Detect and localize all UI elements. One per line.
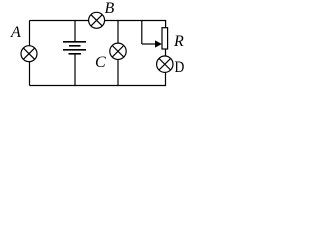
rheostat wiper arrowhead xyxy=(155,40,162,47)
lamp C xyxy=(110,43,126,59)
battery cell plate short bottom xyxy=(69,53,82,55)
wire rheostat to lamp D stub xyxy=(165,49,167,56)
battery cell plate long lower xyxy=(63,49,86,51)
wire lamp C branch top stub xyxy=(117,21,119,44)
lamp B xyxy=(89,12,105,28)
wire left edge upper xyxy=(29,21,31,46)
svg-text:B: B xyxy=(105,0,115,17)
wire lamp C branch bottom stub xyxy=(117,60,119,86)
svg-text:D: D xyxy=(175,59,185,76)
wire right branch corner into rheostat xyxy=(165,21,167,28)
wire top-left segment xyxy=(30,20,89,22)
lamp D xyxy=(157,56,173,72)
wire battery branch bottom stub xyxy=(74,54,76,86)
svg-text:A: A xyxy=(10,24,21,41)
svg-text:C: C xyxy=(95,54,106,71)
rheostat R body box xyxy=(162,28,168,49)
wire lamp D to bottom stub xyxy=(165,73,167,86)
svg-text:R: R xyxy=(173,33,184,50)
battery cell plate long top xyxy=(63,41,86,43)
lamp A xyxy=(21,46,37,62)
wire battery branch top stub xyxy=(74,21,76,42)
wire top-right segment xyxy=(105,20,167,22)
wire left edge lower xyxy=(29,62,31,86)
wire bottom xyxy=(30,85,167,87)
wire rheostat wiper vertical xyxy=(141,21,143,45)
wire rheostat wiper horizontal xyxy=(142,43,156,45)
battery cell plate short xyxy=(69,45,81,47)
